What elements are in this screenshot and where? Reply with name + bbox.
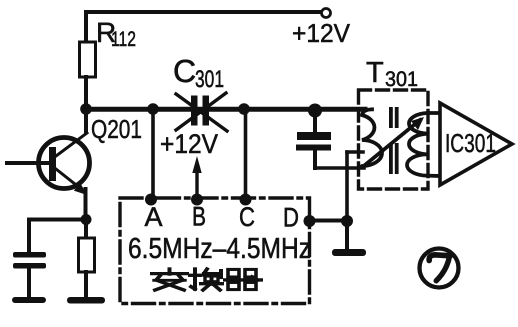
svg-text:IC301: IC301 <box>445 128 496 158</box>
svg-text:301: 301 <box>195 66 224 93</box>
svg-text:B: B <box>192 202 206 232</box>
svg-text:301: 301 <box>385 68 418 91</box>
svg-text:+12V: +12V <box>292 18 351 48</box>
svg-text:+12V: +12V <box>160 129 218 159</box>
svg-text:D: D <box>283 203 299 233</box>
svg-text:Q201: Q201 <box>91 114 142 144</box>
svg-text:C: C <box>173 53 196 89</box>
svg-text:C: C <box>239 202 255 232</box>
svg-text:6.5MHz–4.5MHz: 6.5MHz–4.5MHz <box>128 233 311 265</box>
svg-text:112: 112 <box>111 28 136 51</box>
svg-text:T: T <box>366 57 384 89</box>
svg-text:A: A <box>145 202 163 232</box>
